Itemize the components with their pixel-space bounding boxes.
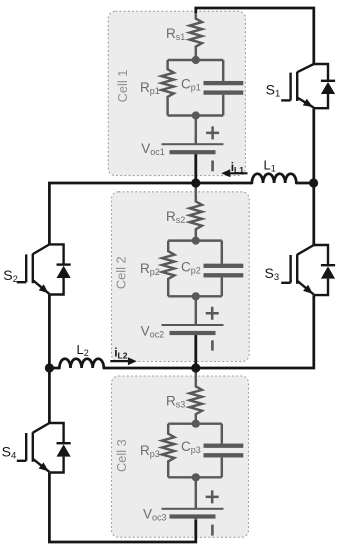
svg-text:S2: S2 — [3, 267, 18, 285]
svg-text:S4: S4 — [2, 444, 17, 462]
transistor S1 (IGBT with antiparallel diode) — [281, 64, 335, 108]
wire left rail S2 to S4 — [48, 295, 51, 424]
arrow iL1 (current direction) — [221, 169, 247, 177]
wire cell2 battery to bus2 — [194, 334, 197, 369]
node dot bottom of RC pair cell3 — [192, 473, 200, 481]
plus sign cell1 — [206, 126, 219, 139]
svg-text:Cell 2: Cell 2 — [113, 256, 128, 289]
svg-text:L1: L1 — [264, 157, 276, 173]
wire top (cell1 top to right rail) — [196, 8, 314, 64]
minus sign cell3 — [211, 525, 214, 536]
resistor Rp2 — [162, 241, 174, 297]
node dot bottom of RC pair cell1 — [192, 111, 200, 119]
cell 2 dashed box — [112, 192, 250, 362]
inductor L1 — [252, 174, 296, 183]
wire RC parallel bottom cell2 — [168, 295, 222, 297]
transistor S2 (IGBT with antiparallel diode) — [17, 244, 71, 294]
wire cell1 battery to bus1 — [194, 152, 197, 183]
wire bus2 L2 to node — [103, 367, 195, 370]
wire RC parallel top cell2 — [168, 239, 222, 241]
battery Voc2 plates — [162, 324, 224, 335]
svg-text:S1: S1 — [266, 82, 281, 100]
node dot top of RC pair cell2 — [192, 237, 200, 245]
wire node to battery cell2 — [195, 296, 197, 325]
transistor S3 (IGBT with antiparallel diode) — [281, 245, 335, 295]
wire right rail below S3 + bus2 right — [196, 295, 314, 368]
arrow iL2 (current direction) — [110, 357, 136, 365]
svg-text:Cell 1: Cell 1 — [115, 70, 130, 103]
junction dot bus1 center node — [191, 178, 200, 187]
wire RC parallel bottom cell3 — [168, 476, 222, 478]
junction dot bus2 left node — [45, 363, 54, 372]
wire L1 to right rail — [296, 182, 314, 185]
resistor Rs3 — [190, 368, 202, 424]
node dot top of RC pair cell3 — [192, 420, 200, 428]
inductor L2 — [59, 359, 103, 368]
wire cell3 battery to bottom wire — [195, 517, 197, 521]
wire bus2 left stub — [49, 367, 59, 370]
svg-text:S3: S3 — [265, 265, 280, 283]
node dot top of RC pair cell1 — [192, 56, 200, 64]
minus sign cell1 — [211, 161, 214, 172]
plus sign cell3 — [206, 490, 219, 503]
wire left rail below S4 + bottom wire — [49, 473, 195, 543]
transistor S4 (IGBT with antiparallel diode) — [17, 423, 71, 473]
wire bus1 + left rail to S2 — [49, 183, 252, 244]
battery Voc3 plates — [162, 508, 224, 519]
wire RC parallel bottom cell1 — [168, 114, 224, 116]
cell 1 dashed box — [108, 11, 245, 175]
resistor Rs1 — [190, 13, 202, 60]
cell 3 dashed box — [112, 376, 249, 537]
plus sign cell2 — [206, 307, 219, 320]
junction dot bus1 L1 right node — [309, 178, 318, 187]
node dot bottom of RC pair cell2 — [192, 292, 200, 300]
capacitor Cp1 — [204, 60, 244, 116]
resistor Rp3 — [162, 424, 174, 478]
wire node to battery cell3 — [195, 477, 197, 509]
wire RC parallel top cell3 — [168, 422, 222, 424]
wire node to battery cell1 — [195, 116, 197, 145]
capacitor Cp3 — [204, 424, 244, 478]
capacitor Cp2 — [204, 241, 244, 297]
battery Voc1 plates — [162, 143, 224, 154]
wire right rail S1 to S3 — [312, 108, 315, 245]
svg-text:L2: L2 — [77, 342, 89, 358]
resistor Rs2 — [190, 183, 202, 241]
minus sign cell2 — [211, 340, 214, 350]
junction dot bus2 center node — [191, 363, 200, 372]
svg-text:Cell 3: Cell 3 — [114, 439, 129, 472]
wire RC parallel top cell1 — [168, 59, 224, 61]
resistor Rp1 — [161, 60, 173, 116]
